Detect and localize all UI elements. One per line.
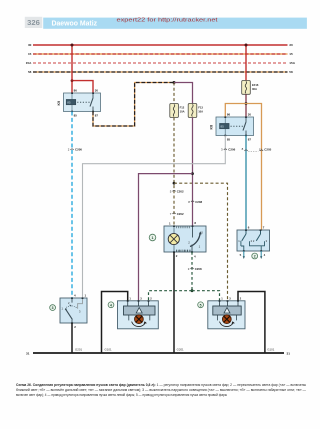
wire red feed to fuse EF16 (245, 45, 247, 81)
svg-text:86: 86 (227, 113, 231, 117)
svg-text:F12: F12 (180, 106, 185, 110)
thumbwheel switch (192, 226, 194, 238)
label circled 1 (149, 234, 156, 241)
wire black U1 pin2 to ground (173, 252, 175, 353)
label circled 4 (108, 302, 114, 308)
svg-text:85: 85 (221, 125, 225, 129)
svg-text:K9: K9 (57, 101, 61, 106)
bus 15A (red dashed) (33, 62, 288, 64)
svg-text:15: 15 (28, 52, 32, 56)
svg-text:C206: C206 (228, 148, 235, 152)
wire green dashed left branch (149, 291, 193, 301)
wire black M1 ground (102, 292, 128, 354)
svg-text:ближний свет; «б» — включён да: ближний свет; «б» — включён дальний свет… (16, 388, 306, 392)
svg-text:K8: K8 (210, 125, 214, 130)
wire olive dashed branch to right actuator (174, 183, 228, 301)
label circled 5 (198, 302, 204, 308)
label circled 3 (50, 305, 56, 311)
pin 4 S2 stub arrow (260, 251, 266, 259)
wire olive dashed F12 to regulator (173, 118, 175, 227)
svg-text:G201: G201 (177, 347, 184, 351)
label circled 2 (252, 253, 258, 259)
actuator M2 (component 5, right) (208, 300, 245, 329)
header title bar (43, 18, 307, 29)
wire gray K8 pin85 to light switch (83, 136, 226, 299)
svg-text:85: 85 (67, 101, 71, 105)
svg-text:F13: F13 (198, 106, 203, 110)
node A (173, 81, 176, 84)
wire black S3 to ground (71, 323, 73, 353)
svg-text:2: 2 (254, 255, 256, 259)
wire maroon EF16 to node D (245, 94, 247, 117)
connector 7 C202 (170, 212, 184, 216)
caption (16, 383, 306, 397)
svg-text:expert22 for http://rutracker.: expert22 for http://rutracker.net (117, 18, 219, 24)
wire orange node D to K8 pin86 (225, 104, 246, 118)
node D (245, 102, 248, 105)
relay K8 (216, 116, 254, 136)
bus labels left (26, 43, 32, 74)
svg-text:EF16: EF16 (252, 83, 259, 87)
wire green dashed U1 pin4 to actuators (191, 252, 193, 291)
svg-text:58: 58 (28, 70, 32, 74)
svg-text:31: 31 (26, 351, 30, 355)
wire black M2 ground (238, 292, 265, 354)
wire orange/black K9 pin87 to node A (93, 83, 174, 127)
headlight switch S2 (component 2) (237, 229, 270, 251)
svg-text:31: 31 (287, 351, 291, 355)
svg-text:30: 30 (289, 43, 293, 47)
svg-text:30: 30 (248, 113, 252, 117)
svg-text:3: 3 (52, 306, 54, 310)
connector 5 C202 (170, 189, 184, 193)
wire red feed to relay K9 (72, 45, 93, 93)
fuse F13 (188, 104, 203, 118)
svg-text:87: 87 (95, 114, 99, 118)
bus 15 (red/orange dashed) (33, 53, 288, 55)
svg-text:326: 326 (27, 18, 40, 27)
svg-text:Daewoo Matiz: Daewoo Matiz (52, 21, 98, 28)
svg-text:1: 1 (152, 236, 154, 240)
svg-text:30: 30 (28, 43, 32, 47)
svg-text:C202: C202 (177, 189, 184, 193)
svg-text:10A: 10A (180, 110, 185, 114)
relay K9 (64, 92, 101, 112)
svg-text:G101: G101 (105, 347, 112, 351)
svg-text:85: 85 (227, 138, 231, 142)
svg-text:86: 86 (74, 89, 78, 93)
svg-text:15A: 15A (289, 61, 295, 65)
header page number box (25, 17, 43, 28)
svg-text:30: 30 (95, 89, 99, 93)
svg-text:15: 15 (289, 52, 293, 56)
wire purple branch to left actuator (139, 174, 193, 301)
svg-text:85: 85 (74, 114, 78, 118)
svg-text:Схема 26. Соединения регулятор: Схема 26. Соединения регулятора направле… (16, 383, 306, 387)
node bus30/K9 (71, 44, 74, 47)
svg-text:C202: C202 (177, 212, 184, 216)
wire purple node A to fuse F13 (174, 83, 193, 104)
svg-text:G201: G201 (75, 347, 82, 351)
svg-text:C205: C205 (264, 148, 271, 152)
fuse EF16 (242, 81, 259, 95)
svg-text:58: 58 (289, 70, 293, 74)
svg-text:30A: 30A (252, 87, 257, 91)
connector 3 C208 (188, 267, 202, 271)
node bus30/EF16 (245, 44, 248, 47)
wire green dashed right branch (192, 291, 220, 301)
regulator U1 (component 1) (164, 225, 206, 252)
connector 8 C208 (188, 200, 202, 204)
connector 3 C206 (221, 148, 236, 152)
svg-text:C208: C208 (195, 200, 202, 204)
connector 2 C206 (68, 148, 83, 152)
svg-text:87: 87 (248, 138, 252, 142)
fuse F12 (170, 104, 185, 118)
svg-text:G101: G101 (267, 347, 274, 351)
wire teal K8 pin87 to switch 2 pin6 (245, 136, 247, 231)
svg-text:15A: 15A (26, 61, 32, 65)
node B olive branch (173, 182, 176, 185)
connector 8 / 11 C205 (242, 147, 272, 152)
svg-text:C208: C208 (195, 267, 202, 271)
bus labels right (289, 43, 295, 74)
wire olive dashed node A to fuse F12 (173, 83, 175, 104)
light switch S3 (component 3) (60, 297, 87, 323)
node C purple branch (191, 172, 194, 175)
wire cyan dashed K9 pin85 to switch 3 (71, 112, 73, 299)
node E green (191, 289, 194, 292)
svg-text:5: 5 (200, 303, 202, 307)
wire purple F13 down (192, 118, 194, 227)
svg-text:включен свет фар); 4 — привод: включен свет фар); 4 — привод регулятора… (16, 393, 227, 397)
bus 30 (solid red) (33, 44, 288, 46)
svg-text:4: 4 (110, 303, 112, 307)
node K9 branch (71, 79, 74, 82)
ground bus 31 (33, 352, 284, 354)
bus 58 (black/orange dashed) (33, 71, 288, 73)
pin 5 S2 stub arrow (240, 251, 245, 259)
wire orange node D to switch 2 pin7 (246, 104, 262, 231)
actuator M1 (component 4, left) (118, 300, 159, 329)
svg-text:10A: 10A (198, 110, 203, 114)
svg-text:C206: C206 (75, 148, 82, 152)
lamp (168, 233, 179, 244)
